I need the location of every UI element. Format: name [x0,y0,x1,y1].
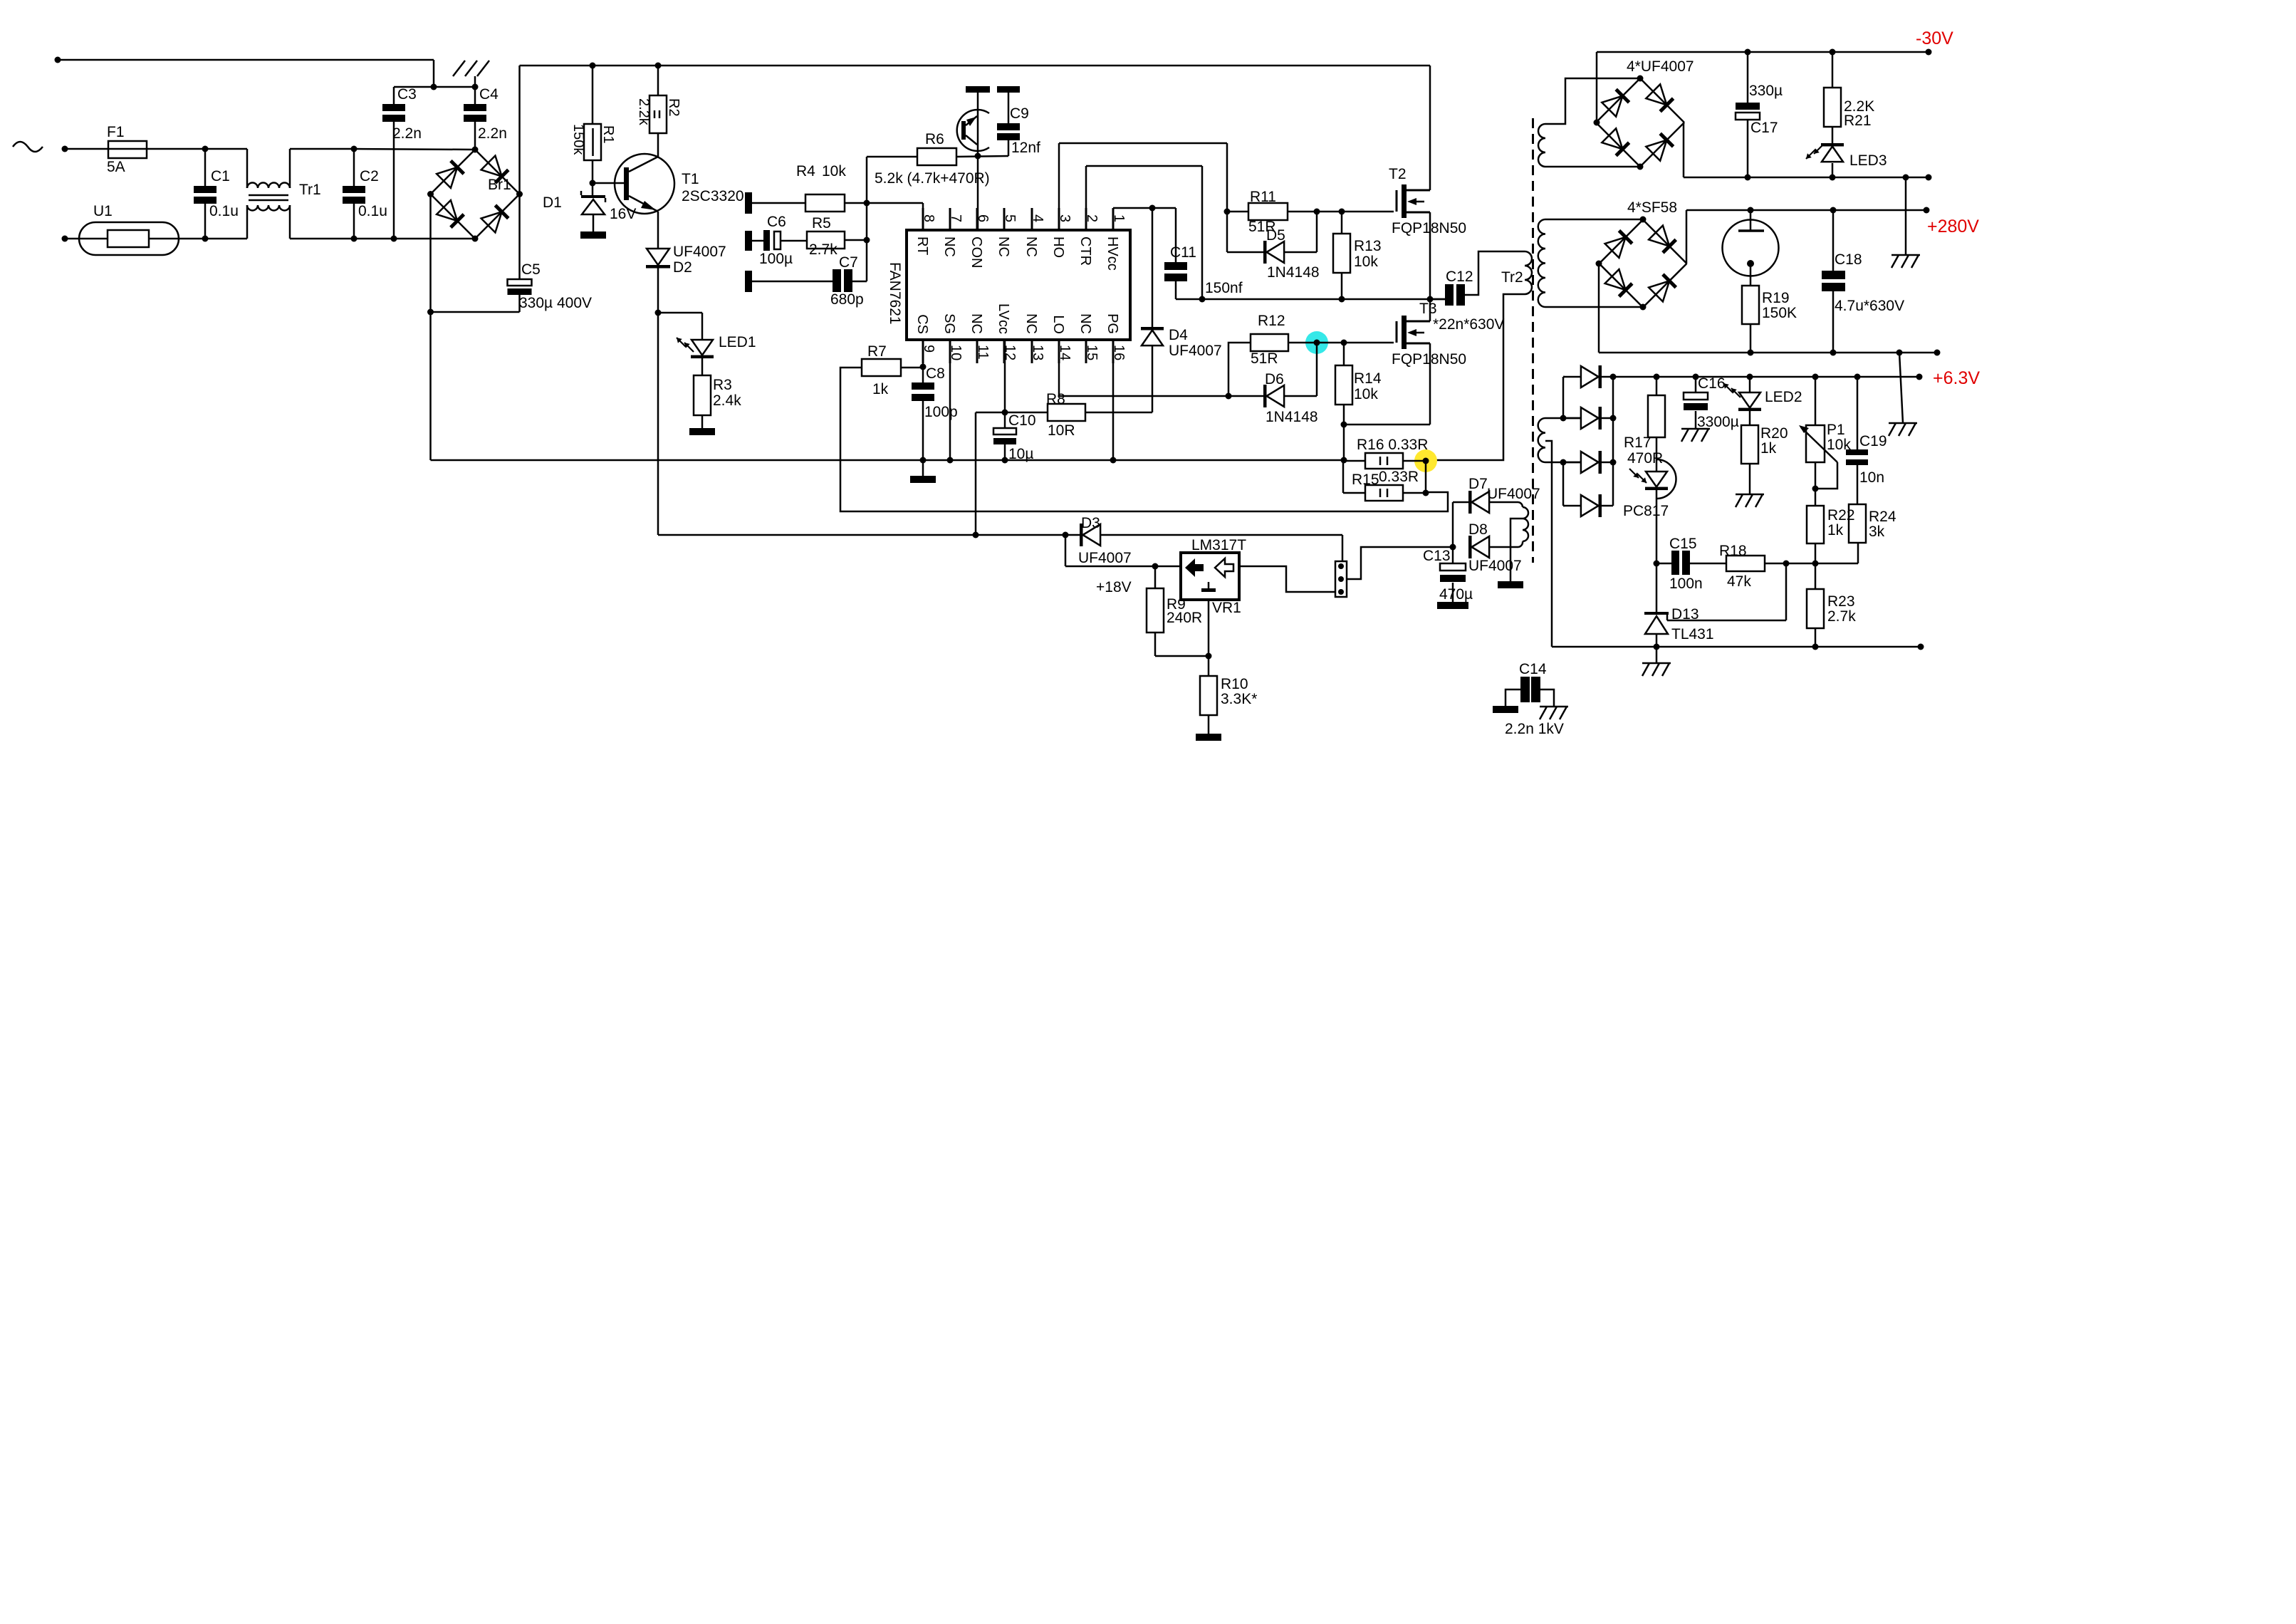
svg-text:R10: R10 [1221,676,1248,692]
D13 ref wire [1667,620,1786,622]
+6.3V line [1602,376,1919,378]
startup transistor collector [966,135,977,145]
R2 top lead [657,66,659,95]
svg-text:FQP18N50: FQP18N50 [1392,220,1466,236]
wire bar3 to C7 [752,281,833,283]
svg-text:FAN7621: FAN7621 [887,262,903,325]
wire C11 top lead [1175,208,1177,262]
wire LVcc to D3 drop [976,412,1005,414]
C14 left lead [1506,689,1520,706]
node fb [1812,561,1819,567]
svg-text:UF4007: UF4007 [1078,550,1132,566]
resistor R16 [1365,453,1403,469]
earth below D13 [1656,647,1658,663]
sec2 top lead [1545,219,1643,221]
ground below R10 [1196,734,1221,741]
node sec3 top [1560,415,1567,422]
svg-text:C5: C5 [521,261,541,278]
transistor T2 [1396,190,1398,212]
capacitor C7 [833,269,841,292]
IC FAN7621 body [907,230,1130,340]
node bridge top [472,147,479,153]
svg-text:2SC3320: 2SC3320 [682,188,744,204]
R1 top lead [592,66,594,124]
svg-text:C6: C6 [767,214,786,230]
svg-text:C14: C14 [1519,661,1547,677]
earth ground B [1889,422,1917,425]
capacitor C18 [1822,271,1845,279]
svg-text:10k: 10k [1354,386,1378,402]
svg-text:C9: C9 [1010,105,1029,122]
svg-text:3300µ: 3300µ [1697,414,1739,430]
svg-text:470R: 470R [1627,450,1663,467]
svg-text:470µ: 470µ [1439,586,1473,603]
svg-text:5A: 5A [107,159,125,175]
svg-text:Br1: Br1 [488,177,511,193]
wire top-left rail [58,59,434,61]
C15 leads [1656,563,1671,565]
D13 lead top [1656,563,1658,612]
wire C3/C4 junction row [394,86,475,88]
wire base [593,182,624,184]
R2 bottom lead [657,133,659,157]
node R15 right [1423,490,1429,496]
node C1 bottom [202,236,209,242]
svg-text:VR1: VR1 [1212,600,1241,616]
capacitor C15 [1671,551,1679,575]
LED1 bottom lead [701,358,704,375]
wire rail down to C3/C4 row [433,60,435,87]
node R2 top [655,63,662,69]
svg-text:150K: 150K [1762,305,1797,321]
LVcc stub down [1004,340,1006,412]
header top wire [1342,535,1344,561]
surge arrester U1 [79,222,179,255]
earth ground A [1891,254,1920,256]
svg-text:2.4k: 2.4k [713,392,741,409]
diode D7 [1468,491,1472,514]
node 280 end [1924,207,1930,214]
T2 source drop [1429,212,1431,299]
wire R11 right [1288,211,1394,213]
ground below C13 [1437,602,1468,609]
R3 bottom lead [701,415,704,428]
tube cathode dot [1747,260,1754,267]
node 63 cath [1610,374,1617,380]
svg-text:T3: T3 [1419,301,1437,317]
capacitor C12 [1445,284,1454,306]
resistor R1 [584,124,601,160]
svg-text:5: 5 [1002,214,1018,222]
VR1 out wire [1239,566,1335,592]
svg-text:C8: C8 [926,365,945,382]
resistor R22 [1807,506,1824,543]
C18 leads [1832,210,1835,271]
svg-text:2.7k: 2.7k [809,241,837,258]
resistor R10 [1200,676,1217,715]
D5 anode lead [1284,251,1317,254]
VR1 adj mark [1208,582,1210,588]
resistor R14 [1335,365,1352,405]
svg-text:LED2: LED2 [1765,389,1802,405]
svg-text:4: 4 [1030,214,1045,222]
svg-text:R1: R1 [600,125,616,144]
node b3 left [1596,261,1602,267]
node cath3 [1610,459,1617,466]
svg-text:C10: C10 [1008,412,1036,429]
svg-text:UF4007: UF4007 [1468,558,1522,574]
svg-text:15: 15 [1084,345,1100,360]
wire Tr1 bottom to bridge bottom [290,238,475,240]
node AC neutral input [62,236,68,242]
svg-text:0.1u: 0.1u [209,203,239,219]
node C1 top [202,146,209,152]
svg-text:10R: 10R [1048,422,1075,439]
svg-text:C16: C16 [1698,375,1726,392]
node -30V C17 [1745,49,1751,56]
R23 leads [1815,563,1817,589]
T1 collector [629,157,658,172]
svg-text:5.2k (4.7k+470R): 5.2k (4.7k+470R) [875,170,990,187]
wire D3 to header [1100,534,1342,536]
ground bar on SG line [922,460,924,476]
wire b3 left drop [1598,264,1600,353]
svg-text:+18V: +18V [1096,579,1132,595]
svg-text:-30V: -30V [1916,28,1953,48]
T3 source wire [1344,424,1430,426]
C2 leads [353,149,355,186]
D13 bottom lead [1656,634,1658,647]
rect diode anode leads [1563,376,1581,378]
capacitor C4 [464,104,486,111]
resistor R24 [1849,504,1866,543]
node hvret C18 [1830,350,1837,356]
svg-text:+280V: +280V [1927,217,1979,236]
node: AC live input [62,146,68,152]
C17 leads [1747,52,1749,103]
T1 emitter [629,196,658,212]
LED2 arrows [1723,383,1733,392]
diode D8 [1468,536,1472,558]
resistor R7 [862,359,901,376]
svg-text:100n: 100n [1669,576,1703,592]
R1 bottom lead [592,160,594,183]
wire bridge left down [429,194,432,461]
svg-text:C2: C2 [360,168,379,184]
node C2 bottom [351,236,358,242]
VR1 in arrow [1185,558,1204,577]
svg-text:51R: 51R [1251,350,1278,367]
svg-text:R5: R5 [812,215,831,231]
wire C1 bottom to Tr1 bottom [205,238,247,240]
sec3 top lead [1545,417,1582,420]
svg-text:D1: D1 [543,194,562,211]
aux center tap [1510,519,1523,581]
wire 18V drop [1065,535,1067,566]
node b2 bottom [1637,164,1644,170]
ground A drop [1905,177,1907,255]
startup transistor base bar [961,121,966,140]
resistor R8 [1048,404,1085,421]
capacitor C17 [1736,103,1760,110]
CTR wire [1085,166,1087,230]
svg-text:1N4148: 1N4148 [1266,409,1318,425]
R15 left lead [1342,460,1345,493]
svg-text:R11: R11 [1250,189,1276,205]
svg-text:LED3: LED3 [1849,152,1887,169]
VR1 LM317 box [1181,553,1239,600]
node HV return at C5 [427,309,434,316]
ground below tap [1498,581,1523,588]
P1 wiper [1815,462,1837,489]
node LVcc feed [973,532,979,538]
transistor T3 [1396,321,1398,343]
svg-text:1k: 1k [872,381,889,397]
svg-text:R12: R12 [1258,313,1285,329]
common-mode choke Tr1 top winding [246,149,249,188]
LO wire [1058,340,1060,396]
D2 bottom lead [657,268,659,313]
R18 right [1765,563,1858,565]
svg-text:NC: NC [1023,236,1039,257]
node 18V branch [1063,532,1069,538]
svg-text:C13: C13 [1423,548,1451,564]
svg-text:2.2n 1kV: 2.2n 1kV [1505,721,1564,737]
node 0v LED3 [1830,175,1836,181]
node 0v R23 [1812,644,1819,650]
LED3 arrows [1806,150,1815,159]
node 0v gndA [1903,175,1909,181]
node cath2 [1610,415,1617,422]
wire bridge right down to C5 [518,194,521,280]
PC817 lead [1656,490,1658,563]
svg-text:R24: R24 [1869,509,1896,525]
transistor T1 circle [615,154,674,214]
svg-text:R21: R21 [1844,113,1872,129]
PC817 arc [1656,459,1676,499]
cathode vert [1612,377,1614,506]
svg-text:4*UF4007: 4*UF4007 [1627,58,1694,75]
node -30V end [1926,49,1932,56]
wire C12 left [1430,298,1445,301]
node SG line C8 [920,457,927,464]
diode D6 [1263,385,1267,407]
T1 emitter lead [657,212,659,249]
node D5 right riser [1314,209,1320,215]
svg-text:CTR: CTR [1077,236,1093,266]
node 63 LED2 [1747,374,1753,380]
node R14 bottom [1341,422,1347,428]
svg-text:C7: C7 [839,254,858,271]
Tr2 primary bottom lead [1426,294,1525,460]
sec3 center tap [1545,441,1552,647]
node ADJ [1206,653,1212,660]
node C3 top junction [431,84,437,90]
node hvret gndB [1896,350,1903,356]
svg-text:R19: R19 [1762,290,1790,306]
sec2 bottom lead [1545,306,1643,308]
svg-text:TL431: TL431 [1671,626,1714,642]
resistor R3 [694,375,711,415]
fuse F1 [108,141,147,158]
node SG line C10 [1002,457,1008,464]
node sense left [1341,457,1347,464]
VR1 out arrow [1215,558,1233,577]
resistor R23 [1807,589,1824,628]
svg-text:C19: C19 [1859,433,1887,449]
node 63 P1 [1812,374,1819,380]
resistor R20 [1741,425,1758,464]
wire R7 right [901,367,923,369]
resistor R17 [1648,395,1665,437]
node b3 top [1640,217,1647,223]
node D2 anode junction [655,310,662,316]
wire R4 right [845,202,923,204]
P1 body [1806,425,1825,462]
svg-text:1k: 1k [1760,440,1777,457]
T2 drain riser [1429,66,1431,190]
yellow highlight [1414,449,1437,472]
rect diode 3 [1599,451,1602,474]
rect diode cathode leads [1602,417,1613,420]
svg-text:U1: U1 [93,203,113,219]
R16 leads [1343,460,1365,462]
node hvret R19 [1748,350,1754,356]
wire C12 right to primary [1465,251,1525,295]
capacitor C8 [912,382,934,390]
wire R11 left lead [1227,211,1248,213]
svg-text:C11: C11 [1170,244,1196,261]
svg-text:C17: C17 [1750,120,1778,136]
AC source symbol [13,142,43,152]
anode stubs [1563,376,1565,378]
0V line -30 section [1684,177,1929,179]
ground C14 left [1493,706,1518,713]
wire b2 left riser [1596,52,1598,123]
pin16 PG drop [1112,340,1115,460]
svg-text:3.3K*: 3.3K* [1221,691,1257,707]
svg-text:2.7k: 2.7k [1827,608,1856,625]
R15 right lead [1403,492,1426,494]
resistor R5 [807,231,845,249]
svg-text:D4: D4 [1169,327,1188,343]
C1 top lead [204,149,207,186]
svg-text:R3: R3 [713,377,732,393]
svg-text:0.1u: 0.1u [358,203,387,219]
svg-text:R7: R7 [867,343,887,360]
T3 source drop [1429,343,1431,425]
svg-text:Tr1: Tr1 [299,182,321,198]
svg-text:C15: C15 [1669,536,1697,552]
wire RT node vertical [866,203,868,281]
svg-text:*22n*630V: *22n*630V [1433,316,1504,333]
node sec3 bottom [1560,459,1567,466]
C14 right lead [1540,689,1554,707]
terminal bar 1 [745,192,752,214]
svg-text:4.7u*630V: 4.7u*630V [1835,298,1904,314]
capacitor C16 [1684,392,1708,400]
earth C14 right [1540,706,1568,708]
svg-text:R23: R23 [1827,593,1855,610]
svg-text:330µ: 330µ [1749,83,1783,99]
HV+ rail [520,65,1431,67]
svg-text:Tr2: Tr2 [1501,269,1523,286]
P1 arrow [1801,427,1837,462]
wire b3 right riser [1686,210,1688,264]
wire b2 right drop [1683,123,1685,177]
node 0v D13 [1654,644,1660,650]
node C18 top [1830,207,1837,214]
PC817 led [1646,472,1667,487]
node SG line pin10 [947,457,954,464]
node D4 top [1149,205,1156,212]
svg-text:D8: D8 [1468,521,1488,538]
svg-text:3k: 3k [1869,524,1885,540]
node hvret end [1934,350,1941,356]
R14 leads [1343,343,1345,365]
+280V line [1686,209,1926,212]
node T2 source [1427,296,1434,303]
C1 bottom lead [204,204,207,239]
svg-text:100p: 100p [924,404,958,420]
wire D2 node down to D3 row [657,313,659,535]
R19 lead [1750,324,1752,353]
resistor R2 [649,95,667,133]
svg-text:NC: NC [969,313,984,334]
HO wire [1058,143,1060,230]
wire C7 right [852,281,867,283]
svg-text:HVcc: HVcc [1105,236,1120,271]
svg-text:C12: C12 [1446,269,1473,285]
resistor R19 [1742,286,1759,324]
node T1 base [590,180,596,187]
svg-text:R4: R4 [796,163,815,179]
Tr2 core dashed [1532,118,1534,563]
node -30V R21 [1830,49,1836,56]
svg-text:D5: D5 [1266,227,1285,244]
cyan highlight [1305,331,1328,354]
svg-text:P1: P1 [1827,422,1845,438]
svg-text:13: 13 [1030,345,1045,360]
svg-text:16V: 16V [610,206,636,222]
node top-left [55,57,61,63]
svg-text:F1: F1 [107,124,125,140]
svg-text:R8: R8 [1046,391,1065,407]
svg-text:D2: D2 [673,259,692,276]
capacitor C6 polarized [763,230,770,251]
svg-text:FQP18N50: FQP18N50 [1392,351,1466,368]
wire Tr1 to C2 top [290,148,354,150]
node C2 top [351,146,358,152]
svg-text:330µ 400V: 330µ 400V [519,295,592,311]
D6 anode lead [1284,395,1317,397]
resistor R15 [1365,485,1403,501]
C3 top lead [393,87,395,104]
svg-text:10k: 10k [1354,254,1378,270]
node R13 top [1339,209,1345,215]
wire +18V line [1065,566,1181,568]
svg-text:UF4007: UF4007 [673,244,726,260]
sec3 bottom lead [1545,462,1582,464]
capacitor C14 [1520,677,1530,702]
svg-text:6: 6 [975,214,991,222]
resistor R18 [1726,556,1765,571]
C9 bottom lead [1008,140,1010,156]
C19 leads [1857,377,1859,449]
svg-text:R15: R15 [1352,472,1379,488]
ground below D1 [580,231,606,239]
capacitor C2 [343,186,365,193]
